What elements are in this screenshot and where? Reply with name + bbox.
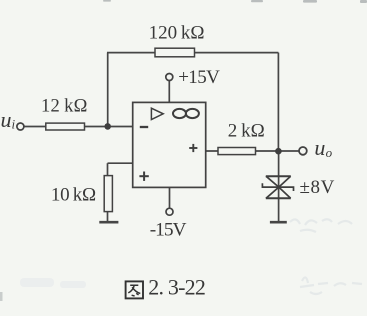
svg-text:120 kΩ: 120 kΩ [149, 23, 205, 44]
resistor R3 10 kOhm body (vertical) [104, 176, 112, 212]
svg-text:10 kΩ: 10 kΩ [51, 184, 96, 205]
wire: non-inverting input horizontal [108, 162, 133, 164]
svg-text:2 kΩ: 2 kΩ [228, 121, 265, 142]
svg-text:i: i [12, 117, 16, 132]
terminal uo (output) [299, 147, 307, 155]
wire: zener branch vertical from output node to ground [278, 151, 280, 222]
wire: feedback top horizontal through R2 [107, 52, 278, 54]
op-amp U1 infinity gain symbol [173, 109, 199, 118]
wire: +15V supply stub to op-amp top [168, 81, 170, 103]
svg-text:-15V: -15V [150, 220, 187, 241]
terminal +15V supply [166, 74, 173, 81]
resistor R1 12 kOhm body [46, 123, 85, 130]
node: inverting input junction dot [104, 123, 111, 130]
svg-text:u: u [1, 107, 12, 132]
wire: -15V supply stub from op-amp bottom [169, 187, 171, 208]
op-amp U1 triangle symbol [151, 108, 163, 119]
resistor R4 2 kOhm body (output) [218, 148, 256, 155]
op-amp U1 rectangle body [133, 102, 206, 187]
svg-text:±8V: ±8V [300, 177, 335, 198]
ground (below zener D1) [270, 221, 287, 224]
op-amp U1 inverting input minus label [140, 126, 148, 128]
svg-text:u: u [314, 135, 325, 160]
wire: non-inverting branch down through R3 to ground [107, 163, 109, 221]
ground (below R3 10 k) [99, 221, 118, 224]
terminal ui (input) [17, 123, 24, 130]
resistor R2 120 kOhm body (feedback) [155, 48, 195, 57]
svg-text:12 kΩ: 12 kΩ [41, 97, 88, 117]
wire: input line from ui terminal through R1 to op-amp inverting input [24, 126, 133, 128]
node: output junction dot [275, 148, 282, 155]
svg-text:+15V: +15V [178, 67, 220, 88]
zener diode D1 (bidirectional clamp, +-8V) [262, 176, 293, 198]
svg-text:2. 3-22: 2. 3-22 [148, 274, 205, 299]
op-amp U1 non-inverting input plus label [139, 172, 148, 181]
op-amp U1 output polarity plus label [189, 144, 197, 152]
svg-text:o: o [326, 145, 333, 160]
wire: op-amp output through R4 to uo terminal [206, 150, 299, 152]
wire: feedback right vertical down to output node [277, 53, 279, 152]
caption figure number: tu character glyph [126, 281, 143, 298]
terminal -15V supply [166, 208, 173, 215]
wire: feedback left vertical from inverting node up [107, 53, 109, 127]
